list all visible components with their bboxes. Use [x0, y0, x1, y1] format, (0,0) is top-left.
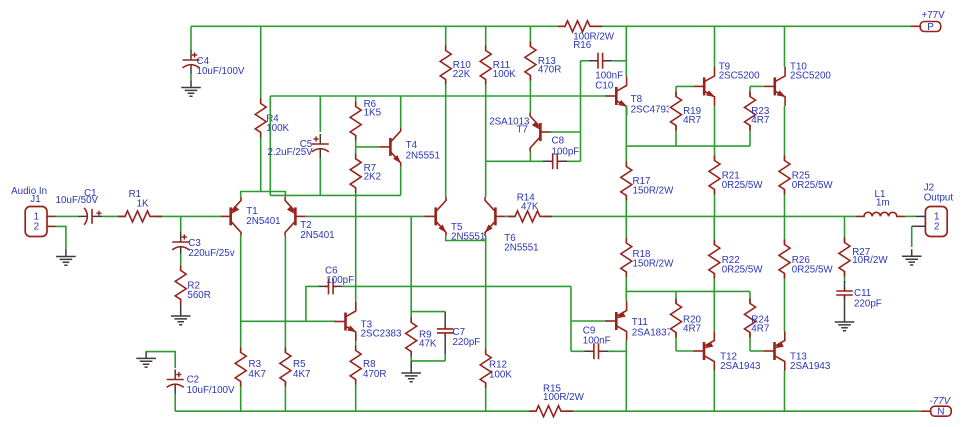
svg-text:-77V: -77V	[930, 396, 952, 407]
wire T3 base line	[241, 320, 336, 322]
capacitor C6	[319, 285, 343, 287]
capacitor C7	[444, 319, 446, 343]
capacitor C5	[319, 96, 321, 132]
resistor R9	[404, 323, 418, 351]
wire bias box bottom	[270, 194, 400, 196]
svg-text:T4: T4	[406, 140, 418, 151]
resistor R17	[619, 167, 633, 195]
ground below C4	[190, 74, 192, 81]
svg-text:2N5551: 2N5551	[406, 151, 440, 162]
transistor T8 2SC4793	[605, 95, 616, 97]
node R27 branch	[844, 216, 846, 282]
wire C10 T7 column	[580, 61, 582, 162]
capacitor C10	[581, 60, 589, 62]
svg-text:10uF/100V: 10uF/100V	[197, 66, 245, 77]
wire C6 to T11 base column	[343, 285, 571, 287]
svg-text:47K: 47K	[521, 201, 539, 212]
wire T10 emitter to R25	[784, 106, 786, 216]
resistor R15	[537, 404, 565, 418]
wire J2 pin2 to ground	[911, 226, 913, 247]
transistor T10 2SC5200	[764, 85, 775, 87]
svg-text:2: 2	[34, 222, 39, 233]
wire T13 base	[750, 350, 764, 352]
svg-text:10uF/50V: 10uF/50V	[56, 195, 99, 206]
pin J2-2	[912, 225, 926, 227]
resistor R23	[749, 86, 751, 146]
wire T4 collector	[400, 96, 402, 127]
resistor R16	[566, 19, 594, 33]
pin J1-1	[47, 215, 56, 217]
capacitor C1	[78, 215, 102, 217]
svg-text:T7: T7	[516, 125, 527, 136]
svg-text:2N5401: 2N5401	[246, 216, 280, 227]
svg-text:2SA1837: 2SA1837	[632, 328, 672, 339]
wire T6 base to R14	[504, 215, 856, 217]
svg-text:220pF: 220pF	[453, 337, 481, 348]
wire T9 base	[676, 85, 693, 87]
wire C6 net	[306, 286, 319, 321]
svg-text:C8: C8	[552, 136, 565, 147]
svg-text:4R7: 4R7	[751, 324, 769, 335]
resistor R26	[778, 245, 792, 273]
svg-text:2N5551: 2N5551	[504, 243, 538, 254]
transistor T5 2N5551	[425, 215, 436, 217]
svg-text:100K: 100K	[493, 69, 516, 80]
svg-text:2SC5200: 2SC5200	[790, 71, 831, 82]
svg-text:150R/2W: 150R/2W	[633, 185, 675, 196]
svg-text:470R: 470R	[363, 369, 386, 380]
pin J2-1	[916, 215, 926, 217]
wire C1 to R1	[102, 215, 221, 217]
transistor T3 2SC2383	[335, 321, 346, 323]
wire T8 emitter node	[625, 106, 627, 216]
wire T10 base	[750, 85, 764, 87]
resistor R6	[355, 96, 357, 195]
svg-text:Audio In: Audio In	[11, 186, 47, 197]
wire R9 C7 bottom	[411, 360, 445, 362]
transistor T9 2SC5200	[693, 85, 704, 87]
svg-text:1K: 1K	[137, 198, 149, 209]
svg-text:4R7: 4R7	[683, 324, 701, 335]
transistor T13 2SA1943	[764, 350, 775, 352]
wire T11 base column	[570, 286, 572, 351]
wire T6 emitter down to R12	[485, 241, 487, 412]
capacitor C3	[180, 232, 182, 256]
svg-text:1m: 1m	[876, 197, 890, 208]
svg-text:0R25/5W: 0R25/5W	[792, 180, 834, 191]
resistor R20	[675, 291, 677, 351]
svg-text:560R: 560R	[187, 290, 210, 301]
resistor R25	[778, 161, 792, 189]
svg-text:100nF: 100nF	[583, 336, 611, 347]
resistor R5	[278, 353, 292, 381]
wire R4 branch	[260, 26, 262, 191]
wire R6 R7 mid node	[356, 146, 380, 148]
capacitor C11	[844, 281, 846, 305]
wire T2 base to T5 base	[305, 215, 426, 217]
ground below J2	[902, 249, 922, 265]
svg-text:4K7: 4K7	[249, 369, 266, 380]
wire upper driver node	[626, 145, 750, 147]
resistor R14	[516, 209, 544, 223]
wire T3 collector up to bias box	[355, 195, 357, 302]
node C3 junction	[180, 216, 182, 232]
wire R26 branch	[784, 216, 786, 331]
transistor T12 2SA1943	[693, 350, 704, 352]
svg-text:150R/2W: 150R/2W	[633, 259, 675, 270]
svg-text:22K: 22K	[453, 69, 471, 80]
svg-text:2SC2383: 2SC2383	[361, 328, 402, 339]
svg-text:47K: 47K	[419, 338, 437, 349]
wire T9 emitter to R21	[714, 106, 716, 216]
resistor R24	[749, 291, 751, 351]
resistor R18	[619, 243, 633, 271]
svg-text:2.2uF/25V: 2.2uF/25V	[268, 147, 314, 158]
wire T5 T6 emitter tie	[446, 236, 486, 241]
svg-text:2SA1943: 2SA1943	[720, 361, 761, 372]
wire input	[56, 215, 79, 217]
svg-text:2K2: 2K2	[364, 172, 381, 183]
wire +77V top rail	[191, 25, 911, 27]
wire T12 base	[676, 350, 693, 352]
svg-text:10uF/100V: 10uF/100V	[187, 385, 235, 396]
wire -77V bottom rail	[174, 394, 176, 412]
svg-text:100K: 100K	[489, 370, 512, 381]
wire T10 collector	[784, 26, 786, 67]
transistor T6 2N5551	[495, 215, 506, 217]
capacitor C2	[146, 352, 175, 368]
svg-text:0R25/5W: 0R25/5W	[722, 180, 764, 191]
resistor R2	[174, 271, 188, 299]
capacitor C4	[190, 26, 192, 50]
svg-text:1K5: 1K5	[364, 108, 382, 119]
wire L1 to J2	[905, 215, 916, 217]
svg-text:2SC4793: 2SC4793	[631, 104, 672, 115]
wire T4 emitter	[400, 166, 402, 195]
svg-text:2SA1943: 2SA1943	[790, 361, 831, 372]
wire T1 collector down	[240, 236, 242, 411]
resistor R4	[254, 104, 268, 132]
svg-text:N: N	[937, 407, 944, 418]
terminal N -77V	[921, 410, 931, 412]
svg-text:P: P	[927, 22, 934, 33]
wire lower driver node	[626, 290, 750, 292]
svg-text:2N5401: 2N5401	[300, 230, 334, 241]
wire T3 emitter to R8	[355, 341, 357, 411]
wire T8 collector to rail	[625, 26, 627, 76]
svg-text:2SC5200: 2SC5200	[719, 71, 760, 82]
svg-text:0R25/5W: 0R25/5W	[792, 264, 834, 275]
resistor R22	[707, 245, 721, 273]
wire T7 base to C10 column	[550, 131, 580, 133]
svg-text:470R: 470R	[538, 65, 561, 76]
capacitor C8	[543, 160, 567, 162]
wire J1 pin2 to ground	[56, 226, 66, 250]
svg-text:4K7: 4K7	[293, 369, 310, 380]
capacitor C9	[571, 350, 584, 352]
svg-text:C2: C2	[187, 375, 200, 386]
svg-text:100pF: 100pF	[552, 147, 580, 158]
inductor L1	[856, 212, 905, 216]
transistor T2 2N5401	[295, 215, 306, 217]
svg-text:100R/2W: 100R/2W	[543, 392, 585, 403]
resistor R12	[479, 354, 493, 382]
transistor T1 2N5401	[220, 215, 231, 217]
resistor R11	[479, 51, 493, 79]
transistor T4 2N5551	[379, 146, 390, 148]
wire R9 C7 top	[411, 311, 445, 313]
resistor R19	[675, 86, 677, 146]
resistor R1	[126, 209, 154, 223]
wire bias box left	[269, 96, 271, 195]
wire bias box top	[270, 95, 606, 97]
wire T1 T2 emitter tie	[241, 192, 286, 197]
wire T11 collector down	[625, 341, 627, 412]
ground left of C2	[136, 351, 156, 367]
ground below R9	[410, 361, 412, 367]
wire R13 branch	[529, 26, 531, 112]
ground below R2	[180, 305, 182, 310]
svg-text:4R7: 4R7	[683, 115, 701, 126]
resistor R8	[349, 351, 363, 379]
wire C3 to R2	[180, 254, 182, 304]
svg-text:4R7: 4R7	[751, 115, 769, 126]
wire C8 net	[486, 160, 543, 162]
svg-text:10R/2W: 10R/2W	[852, 255, 888, 266]
wire T12 collector down	[713, 371, 715, 412]
wire R22 branch	[713, 216, 715, 331]
wire T2 collector down	[284, 236, 286, 411]
terminal P +77V	[911, 25, 920, 27]
wire R10 branch	[445, 26, 447, 197]
wire T11 base	[571, 320, 607, 322]
ground below J1	[56, 250, 76, 266]
svg-text:2: 2	[934, 222, 939, 233]
svg-text:100pF: 100pF	[326, 275, 354, 286]
ground below C11	[844, 305, 846, 315]
resistor R21	[708, 161, 722, 189]
transistor T7 2SA1013	[540, 131, 551, 133]
svg-text:Output: Output	[924, 193, 954, 204]
resistor R3	[234, 353, 248, 381]
wire T9 collector	[714, 26, 716, 67]
wire R18 branch	[625, 216, 627, 301]
svg-text:+77V: +77V	[922, 10, 946, 21]
svg-text:J1: J1	[30, 194, 40, 205]
transistor T11 2SA1837	[605, 320, 616, 322]
svg-text:R16: R16	[573, 40, 592, 51]
resistor R13	[523, 47, 537, 75]
resistor R7	[349, 159, 363, 187]
resistor R10	[439, 51, 453, 79]
svg-text:0R25/5W: 0R25/5W	[722, 264, 764, 275]
svg-text:220uF/25v: 220uF/25v	[188, 248, 234, 259]
node R9 branch	[410, 216, 412, 361]
wire R11 branch	[485, 26, 487, 197]
svg-text:C11: C11	[854, 288, 871, 299]
svg-text:220pF: 220pF	[854, 299, 882, 310]
resistor R27	[838, 243, 852, 271]
svg-text:C10: C10	[595, 80, 614, 91]
wire T13 collector down	[784, 371, 786, 412]
wire T7 collector	[529, 152, 531, 162]
pin J1-2	[47, 225, 56, 227]
